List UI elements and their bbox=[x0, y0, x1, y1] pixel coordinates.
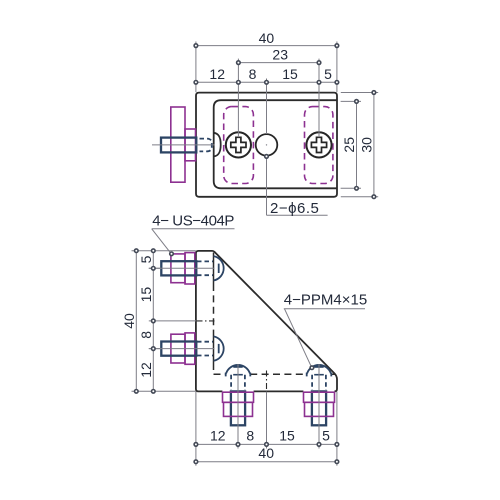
svg-text:40: 40 bbox=[259, 30, 275, 46]
top 23 dimension line bbox=[238, 62, 319, 64]
body outer rectangle bbox=[196, 93, 337, 197]
extension line right screw center bbox=[318, 59, 320, 138]
side extension lower screw bbox=[149, 348, 161, 350]
bottom 12/8/15/5 dimension line bbox=[196, 443, 337, 445]
svg-text:5: 5 bbox=[322, 427, 330, 443]
leader dot US-404P bbox=[170, 252, 174, 256]
dot 40 top left bbox=[194, 44, 198, 48]
side extension bottom edge bbox=[132, 390, 196, 392]
top-view washer flange (magenta) bbox=[185, 129, 196, 161]
label US-404P underline bbox=[152, 228, 235, 230]
svg-text:4−PPM4×15: 4−PPM4×15 bbox=[284, 292, 367, 309]
dot 23 right bbox=[317, 61, 321, 65]
phillips screw head right circle bbox=[306, 132, 331, 157]
dot 30 bottom bbox=[372, 195, 376, 199]
hidden bottom leg inner face (dashed) bbox=[214, 373, 335, 375]
leg centerline vertical (dash-dot) bbox=[266, 371, 268, 392]
label PPM4x15 underline bbox=[284, 308, 365, 310]
dot side40 bottom bbox=[135, 390, 139, 394]
svg-text:15: 15 bbox=[279, 427, 295, 443]
dot 25 top bbox=[355, 100, 359, 104]
dot bottom40 left bbox=[194, 460, 198, 464]
hidden vertical leg inner face (dashed) bbox=[213, 284, 215, 374]
leader dot PPM4x15 bbox=[310, 366, 314, 370]
dot bottom seg e bbox=[335, 443, 339, 447]
svg-text:5: 5 bbox=[138, 255, 154, 263]
top 40 dimension line bbox=[196, 45, 337, 47]
hole center dot bbox=[266, 144, 267, 145]
slot bump on inner left rail bbox=[214, 133, 221, 157]
svg-text:23: 23 bbox=[272, 47, 288, 63]
dim 30 extension bottom bbox=[341, 196, 378, 198]
bottom 40 dimension line bbox=[196, 461, 337, 463]
dot bottom seg a bbox=[194, 443, 198, 447]
side extension mid centerline bbox=[149, 320, 197, 322]
dot seg c bbox=[265, 81, 269, 85]
top-view screw centerline (gray) bbox=[152, 144, 215, 146]
bracket outline bbox=[196, 251, 337, 392]
top-view hidden screw head (navy dashed) bbox=[200, 139, 212, 152]
top-view screw shaft (navy) bbox=[161, 138, 196, 153]
leader PPM4x15 bbox=[285, 309, 311, 366]
leader US-404P bbox=[152, 229, 171, 253]
dot seg a bbox=[194, 81, 198, 85]
phillips cross right bbox=[311, 137, 326, 152]
svg-text:4− US−404P: 4− US−404P bbox=[152, 213, 234, 230]
svg-text:2−ϕ6.5: 2−ϕ6.5 bbox=[270, 200, 319, 217]
extension line part left edge bbox=[195, 42, 197, 93]
dot bottom seg d bbox=[317, 443, 321, 447]
phillips cross left bbox=[231, 137, 246, 152]
dot 23 left bbox=[237, 61, 241, 65]
screw clearance dashed zone left (magenta) bbox=[224, 107, 254, 184]
phillips screw head left circle bbox=[226, 132, 251, 157]
svg-text:8: 8 bbox=[249, 66, 257, 82]
through hole circle bbox=[256, 134, 278, 156]
svg-text:12: 12 bbox=[210, 427, 226, 443]
left bottom vertical screw bbox=[223, 364, 254, 449]
dot bottom40 right bbox=[335, 460, 339, 464]
upper horizontal screw bbox=[149, 253, 224, 284]
svg-text:8: 8 bbox=[138, 331, 154, 339]
dot side seg a bbox=[152, 249, 156, 253]
dot side seg c bbox=[152, 319, 156, 323]
svg-text:15: 15 bbox=[282, 66, 298, 82]
label 2-phi6.5 underline bbox=[267, 214, 328, 216]
dot seg d bbox=[317, 81, 321, 85]
side extension upper screw bbox=[149, 267, 161, 269]
bottom extension right bbox=[336, 392, 338, 466]
side 40 dimension line bbox=[135, 251, 137, 392]
dot 30 top bbox=[372, 91, 376, 95]
extension line hole center upper bbox=[266, 79, 268, 135]
svg-text:40: 40 bbox=[121, 313, 137, 329]
lower horizontal screw bbox=[149, 333, 224, 364]
bottom extension left bbox=[195, 392, 197, 466]
dot seg b bbox=[237, 81, 241, 85]
top-view washer plate (magenta) bbox=[171, 107, 185, 182]
leg centerline horizontal (dash-dot) bbox=[197, 320, 215, 322]
dot bottom seg c bbox=[265, 443, 269, 447]
bottom extension right screw bbox=[318, 426, 320, 449]
body inner pocket rails bbox=[214, 100, 337, 188]
svg-text:40: 40 bbox=[258, 445, 274, 461]
dim 25 line bbox=[356, 101, 358, 188]
dot side seg d bbox=[152, 347, 156, 351]
svg-text:8: 8 bbox=[246, 427, 254, 443]
bottom extension center bbox=[266, 392, 268, 449]
svg-text:5: 5 bbox=[324, 66, 332, 82]
svg-text:12: 12 bbox=[138, 362, 154, 378]
dim 25 extension bottom bbox=[341, 187, 361, 189]
side extension top edge bbox=[132, 250, 196, 252]
leader dot hole bbox=[265, 155, 269, 159]
dot 40 top right bbox=[335, 44, 339, 48]
dot seg e bbox=[335, 81, 339, 85]
leader hole center to label bbox=[266, 156, 268, 215]
dim 30 line bbox=[373, 93, 375, 197]
extension line left screw center bbox=[237, 59, 239, 138]
dim 30 extension top bbox=[341, 92, 378, 94]
dot side seg b bbox=[152, 267, 156, 271]
dim 25 extension top bbox=[341, 100, 361, 102]
svg-text:30: 30 bbox=[359, 137, 375, 153]
dot 25 bottom bbox=[355, 187, 359, 191]
screw clearance dashed zone right (magenta) bbox=[305, 107, 333, 184]
extension line part right edge bbox=[336, 42, 338, 93]
svg-text:25: 25 bbox=[341, 137, 357, 153]
top 12/8/15/5 dimension line bbox=[196, 81, 337, 83]
dot side seg e bbox=[152, 390, 156, 394]
svg-text:12: 12 bbox=[209, 66, 225, 82]
bottom extension left screw bbox=[237, 426, 239, 449]
right bottom vertical screw bbox=[304, 364, 335, 449]
dot side40 top bbox=[135, 249, 139, 253]
side 5/15/8/12 dimension line bbox=[152, 251, 154, 392]
solid leg inner face at screw heads bbox=[213, 253, 215, 364]
svg-text:15: 15 bbox=[138, 287, 154, 303]
dot bottom seg b bbox=[236, 443, 240, 447]
